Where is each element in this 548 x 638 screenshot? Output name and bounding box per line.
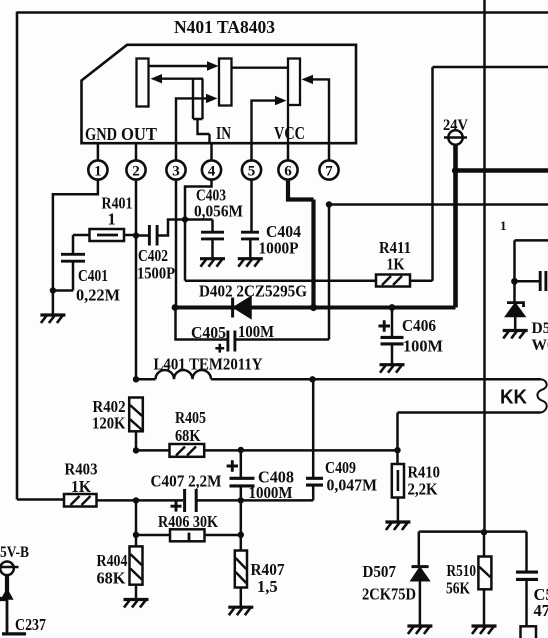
- svg-text:1,5: 1,5: [257, 577, 278, 596]
- svg-text:5V-B: 5V-B: [0, 544, 29, 561]
- svg-text:6: 6: [284, 164, 292, 180]
- svg-text:68K: 68K: [175, 426, 201, 445]
- svg-text:4: 4: [208, 164, 216, 180]
- svg-text:C409: C409: [325, 458, 356, 477]
- svg-text:56K: 56K: [446, 579, 470, 598]
- svg-text:R404: R404: [97, 551, 128, 570]
- svg-text:0,056M: 0,056M: [194, 202, 243, 221]
- svg-text:OUT: OUT: [121, 124, 157, 144]
- svg-text:7: 7: [325, 164, 333, 180]
- svg-text:3: 3: [172, 164, 180, 180]
- svg-text:100M: 100M: [238, 322, 274, 341]
- svg-text:1000P: 1000P: [259, 239, 299, 258]
- svg-text:2,2K: 2,2K: [408, 480, 438, 499]
- svg-text:1: 1: [500, 218, 507, 233]
- svg-text:C406: C406: [402, 316, 436, 335]
- svg-text:C407 2,2M: C407 2,2M: [151, 472, 222, 491]
- svg-text:IN: IN: [216, 123, 231, 143]
- svg-text:1: 1: [108, 210, 116, 229]
- svg-text:KK: KK: [500, 387, 528, 409]
- svg-text:R510: R510: [447, 561, 477, 580]
- svg-text:24V: 24V: [443, 117, 469, 134]
- svg-text:N401 TA8403: N401 TA8403: [174, 17, 275, 37]
- svg-text:C237: C237: [15, 615, 46, 634]
- svg-text:47: 47: [534, 601, 548, 620]
- svg-text:1K: 1K: [71, 477, 91, 496]
- svg-text:R405: R405: [175, 408, 206, 427]
- svg-text:C401: C401: [78, 266, 108, 285]
- svg-text:L401 TEM2011Y: L401 TEM2011Y: [154, 355, 263, 374]
- svg-text:100M: 100M: [403, 337, 443, 356]
- svg-text:D402 2CZ5295G: D402 2CZ5295G: [199, 282, 307, 301]
- svg-text:1500P: 1500P: [137, 264, 175, 283]
- svg-text:C402: C402: [138, 246, 168, 265]
- svg-text:0,047M: 0,047M: [327, 476, 378, 495]
- svg-text:2CK75D: 2CK75D: [362, 585, 416, 604]
- svg-text:R406 30K: R406 30K: [158, 512, 218, 531]
- svg-text:D50: D50: [532, 320, 548, 337]
- svg-text:R403: R403: [65, 460, 98, 479]
- svg-text:1: 1: [94, 164, 102, 180]
- svg-text:2: 2: [132, 164, 140, 180]
- svg-text:0,22M: 0,22M: [76, 286, 120, 305]
- svg-text:R401: R401: [102, 194, 133, 213]
- svg-text:1K: 1K: [387, 255, 405, 274]
- svg-text:1000M: 1000M: [249, 483, 293, 502]
- svg-text:68K: 68K: [97, 569, 126, 588]
- svg-text:5: 5: [248, 164, 256, 180]
- svg-text:120K: 120K: [92, 414, 126, 433]
- svg-text:W06: W06: [532, 337, 548, 354]
- svg-text:VCC: VCC: [274, 123, 305, 143]
- svg-text:C405: C405: [191, 323, 226, 342]
- svg-text:GND: GND: [85, 124, 117, 144]
- svg-text:D507: D507: [363, 562, 397, 581]
